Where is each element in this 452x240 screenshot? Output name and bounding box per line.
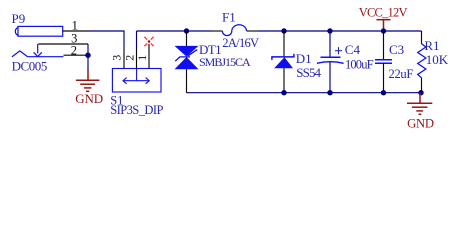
svg-text:1: 1 [135,55,149,61]
top rail wire to R1 corner [258,30,422,32]
connector P9 barrel body [15,26,62,36]
capacitor C4 top plate [321,56,341,58]
svg-text:C4: C4 [345,42,361,57]
diode D1 triangle [274,57,293,68]
junction dot C4 bottom [327,90,332,95]
top rail wire [137,30,213,32]
svg-text:10K: 10K [426,52,449,67]
capacitor C4 bottom curved plate [317,62,344,64]
resistor R1 bottom pin [421,78,423,93]
wire C4 bottom [329,62,331,93]
wire S1 pin2 up to top rail [136,31,138,49]
svg-text:P9: P9 [12,11,26,26]
switch S1 arrow [123,69,149,84]
svg-text:GND: GND [75,91,103,106]
wire pin3/pin2 to ground [87,44,89,69]
svg-text:DC005: DC005 [12,58,47,73]
svg-text:VCC_12V: VCC_12V [359,6,408,20]
svg-text:C3: C3 [389,42,404,57]
junction dot C3 bottom [381,90,386,95]
wire pin1 to S1 pin3 [90,31,124,49]
ground GND left [76,80,100,91]
pin 3 of P9 [38,43,88,45]
TVS diode DT1 top triangle [175,46,199,57]
jack switch arrow [34,44,42,57]
svg-text:SMBJ15CA: SMBJ15CA [199,55,251,69]
S1 pin 1 [148,44,150,69]
fuse F1 right pin [247,30,259,32]
capacitor C3 top plate [375,59,392,61]
diode D1 schottky cathode bar [272,54,294,60]
fuse F1 left pin [212,30,222,32]
jack switch chevron [12,51,28,57]
resistor R1 top wire [421,31,423,44]
S1 pin 3 [123,49,125,69]
resistor R1 zigzag [418,44,426,78]
TVS diode DT1 center bar [175,50,197,62]
switch S1 body [112,69,161,93]
wire D1 top [283,31,285,57]
pin 2 of P9 [64,54,89,56]
TVS diode DT1 bottom triangle [175,57,199,69]
svg-text:SIP3S_DIP: SIP3S_DIP [110,103,163,117]
fuse F1 element [222,25,246,36]
wire DT1 bottom [186,69,188,92]
junction dot D1 top [281,28,286,33]
wire C3 bottom [383,63,385,92]
ground GND right [419,93,421,103]
wire C4 top [329,31,331,57]
junction dot DT1 top [184,28,189,33]
no-ERC marker on S1 pin 1 [144,37,153,46]
wire C3 top [383,31,385,60]
svg-text:R1: R1 [424,38,439,53]
C4 plus sign [335,47,342,54]
jack switch baseline [28,56,64,58]
svg-text:100uF: 100uF [345,58,374,72]
bottom rail wire [187,92,422,94]
svg-text:F1: F1 [222,9,236,24]
svg-text:2A/16V: 2A/16V [222,36,259,50]
junction dot at P9 pin2 [85,53,90,58]
svg-text:SS54: SS54 [296,65,321,80]
svg-text:2: 2 [71,44,77,58]
wire D1 bottom [283,68,285,93]
capacitor C3 bottom plate [375,62,392,64]
svg-text:GND: GND [407,116,434,130]
svg-text:D1: D1 [296,51,312,66]
junction dot D1 bottom [281,90,286,95]
pin 1 of P9 [63,30,90,32]
S1 pin 2 [136,49,138,69]
junction dot VCC / C3 top [381,28,386,33]
junction dot bottom right [418,90,423,95]
junction dot C4 top [327,28,332,33]
wire DT1 top [186,31,188,46]
svg-text:22uF: 22uF [389,67,414,81]
